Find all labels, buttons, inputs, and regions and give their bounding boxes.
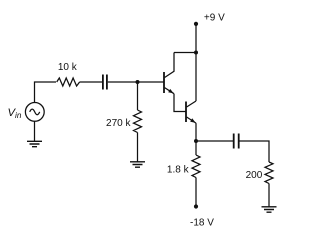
wire C1 to Q1 base xyxy=(108,81,164,83)
wire 270k to ground xyxy=(137,133,139,162)
svg-text:10 k: 10 k xyxy=(58,62,78,73)
resistor R 10k xyxy=(57,78,80,86)
wire node to 1.8k xyxy=(195,141,197,155)
wire node to C2 xyxy=(196,140,233,142)
sine symbol xyxy=(30,109,40,115)
wire node to 270k xyxy=(137,82,139,110)
svg-text:1.8 k: 1.8 k xyxy=(167,164,190,175)
svg-text:270 k: 270 k xyxy=(106,118,131,129)
node A junction dot xyxy=(136,80,140,84)
wire Q2 emitter down to node xyxy=(195,123,197,141)
transistor Q2 base bar xyxy=(185,102,187,123)
resistor 270k xyxy=(134,110,142,133)
resistor 1.8k xyxy=(192,155,200,178)
capacitor C1 xyxy=(103,75,107,90)
transistor Q1 emitter xyxy=(165,88,174,94)
svg-text:200: 200 xyxy=(246,170,263,181)
+9V rail xyxy=(195,24,197,101)
transistor Q2 collector xyxy=(187,101,196,107)
ground below 200 xyxy=(262,207,277,212)
source V_in xyxy=(25,103,44,122)
wire 1.8k to -18V terminal xyxy=(195,178,197,207)
wire Q1 collector to +9V rail xyxy=(174,52,196,54)
ground below source xyxy=(27,141,42,146)
wire source bottom to ground xyxy=(34,121,36,141)
svg-text:+9 V: +9 V xyxy=(204,12,225,23)
emitter node junction dot xyxy=(194,139,198,143)
wire Q1 emitter down to Q2 base xyxy=(174,94,186,112)
wire R 10k to C1 xyxy=(80,81,102,83)
svg-text:-18 V: -18 V xyxy=(190,217,214,228)
transistor Q1 base bar xyxy=(163,72,165,93)
resistor 200 xyxy=(265,162,273,184)
-18V terminal dot xyxy=(194,204,198,208)
wire C2 to 200 xyxy=(240,141,270,162)
transistor Q1 collector xyxy=(165,53,174,78)
+9V rail junction dot xyxy=(194,51,198,55)
Q2 emitter arrow xyxy=(190,118,195,123)
Q1 emitter arrow xyxy=(168,89,173,94)
wire source top to R 10k xyxy=(35,82,57,103)
wire 200 to ground xyxy=(268,184,270,207)
capacitor C2 xyxy=(234,134,239,149)
transistor Q2 emitter xyxy=(187,117,196,123)
svg-text:Vin: Vin xyxy=(8,107,22,120)
+9V terminal dot xyxy=(194,22,198,26)
ground below 270k xyxy=(130,162,145,167)
